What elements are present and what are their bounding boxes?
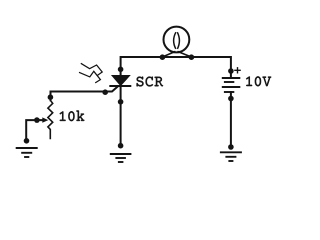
pot wiper arrowhead [42,117,48,122]
ground right bars [220,152,242,161]
lamp filament left arc [174,32,176,49]
node SCR gate [102,89,108,95]
wire gate wire from pot top corner to SCR gate [51,86,118,100]
SCR cathode bar [109,85,131,87]
lamp lead right [178,51,192,57]
potentiometer 10k zigzag body [48,100,53,139]
node ground center junction [118,143,124,149]
battery plus sign [234,67,241,73]
SCR triangle (anode) [112,75,130,85]
node pot top [48,94,54,100]
wire SCR cathode to ground [120,86,122,146]
battery plate long 2 [222,86,241,88]
label 10k [60,111,85,122]
label SCR [137,77,163,87]
ground center bars [110,154,132,162]
lamp bulb circle [164,27,190,53]
battery plate short 1 [224,81,234,83]
light arrow lower [79,71,100,83]
wire top rail from SCR anode to battery positive [121,57,231,77]
label 10V [246,76,271,86]
battery plate long 1 [222,77,241,79]
lamp lead left [162,51,175,57]
ground left bars [16,148,38,157]
wire wiper to left ground [26,120,42,141]
wire battery negative to ground [230,92,232,147]
light arrow upper [81,63,102,76]
node lamp right junction [189,54,195,60]
node ground left junction [24,138,30,144]
node battery positive [228,68,234,74]
lamp filament right arc [177,32,179,49]
node ground right junction [228,144,234,150]
node lamp left junction [160,54,166,60]
node SCR anode [118,67,124,73]
node SCR cathode [118,99,124,105]
node battery negative [228,96,234,102]
node wiper junction [34,117,40,123]
battery plate short 2 [224,91,234,93]
